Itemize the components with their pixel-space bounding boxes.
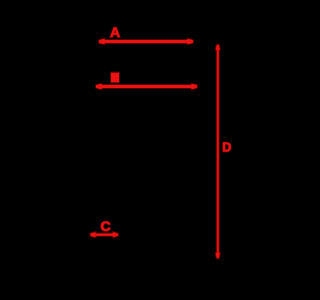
svg-text:C: C: [100, 218, 110, 234]
svg-text:A: A: [110, 24, 120, 40]
svg-text:D: D: [222, 140, 231, 154]
